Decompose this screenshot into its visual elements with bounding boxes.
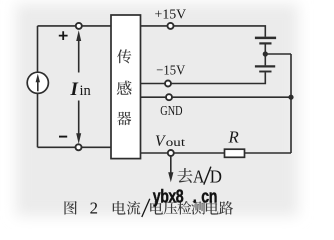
battery B2 (bottom cell)	[255, 66, 275, 71]
wire: +15V rail from box to battery	[141, 26, 266, 37]
node: Vout terminal	[168, 150, 174, 156]
label 去A/D	[177, 168, 192, 183]
current direction arrow (down) at bottom of Iin branch	[76, 101, 81, 145]
resistor R	[225, 149, 245, 157]
node: bottom-left terminal	[76, 144, 82, 150]
junction: battery midpoint	[263, 51, 268, 56]
arrow: Vout to A/D	[168, 156, 173, 182]
wire: right vertical bus	[290, 54, 292, 153]
caption: 图 2 电流/电压检测电路	[64, 201, 76, 215]
wire: -15V rail from box to battery bottom	[141, 72, 266, 83]
wire: resistor to right bus	[245, 152, 292, 154]
svg-text:.: .	[193, 186, 197, 207]
svg-text:−15V: −15V	[156, 63, 185, 78]
label: sensor char 感	[117, 81, 132, 95]
svg-text:I: I	[70, 79, 79, 100]
svg-text:ybx8: ybx8	[153, 186, 184, 207]
node: +15V terminal	[168, 23, 174, 29]
wire: GND rail from box to right bus	[141, 96, 292, 98]
node: GND terminal	[166, 94, 172, 100]
wire: top rail from current source to sensor box	[38, 25, 112, 27]
svg-text:in: in	[80, 83, 92, 99]
svg-text:out: out	[166, 135, 186, 149]
svg-text:R: R	[228, 127, 239, 146]
svg-text:+15V: +15V	[155, 6, 187, 21]
svg-text:2: 2	[90, 199, 98, 218]
wire: bottom rail from current source to sensor box	[38, 146, 112, 148]
scan background tint	[16, 4, 298, 216]
label: sensor char 器	[117, 112, 131, 126]
svg-text:D: D	[210, 166, 222, 186]
sensor box U1	[111, 15, 141, 159]
watermark ybx8.cn	[153, 186, 217, 207]
junction: GND to right bus	[288, 95, 293, 100]
svg-text:cn: cn	[201, 186, 217, 207]
polarity minus sign	[59, 136, 67, 138]
svg-text:GND: GND	[160, 103, 182, 118]
current direction arrow (up) at top of Iin branch	[76, 30, 81, 72]
polarity plus sign	[59, 31, 68, 40]
wire: Vout rail from box to resistor	[141, 152, 225, 154]
wire: battery midpoint to right bus	[265, 44, 291, 65]
current source CS1	[27, 72, 48, 93]
svg-text:A: A	[193, 166, 204, 186]
wire: left vertical through current source	[37, 26, 39, 147]
battery B1 (top cell)	[255, 38, 276, 44]
node: top-left terminal	[76, 23, 82, 29]
node: -15V terminal	[165, 81, 171, 87]
svg-text:V: V	[155, 133, 166, 150]
label: sensor char 传	[117, 49, 131, 63]
caption slash	[142, 199, 150, 217]
